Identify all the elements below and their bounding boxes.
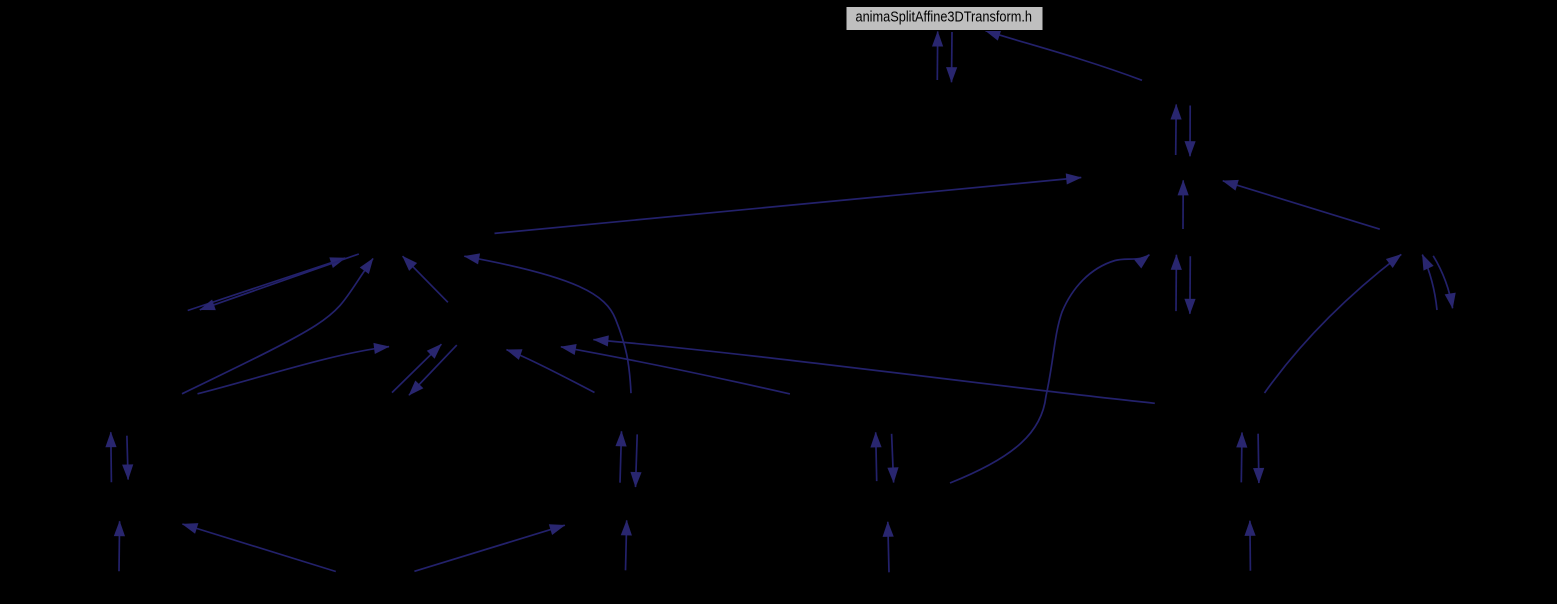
edge node B to node C (down): [1189, 106, 1191, 157]
edge node Y to node D (s-curve): [950, 255, 1149, 483]
edge node N to node A (curve): [182, 259, 373, 394]
edge node W to node T (up): [620, 431, 622, 482]
edge node S to node B2 (up diag): [392, 344, 441, 392]
edge node J to node U2 (line-a): [593, 340, 1154, 404]
edge top box to n2 (down arrow): [951, 32, 954, 82]
edge n2 to top box (up arrow): [936, 32, 938, 81]
edge node T to node B2 (right): [507, 350, 595, 393]
edge node F to node D (up): [1175, 255, 1177, 311]
edge node B2 to node A: [403, 256, 448, 302]
edge node H to node E (up arc): [1422, 255, 1437, 310]
edge node A to node M: [200, 254, 359, 310]
edge node V to node W: [414, 525, 564, 571]
edge node L2 to node L (up single): [1249, 521, 1252, 571]
svg-text:animaSplitAffine3DTransform.h: animaSplitAffine3DTransform.h: [856, 10, 1033, 26]
edge node V to node Q2: [182, 524, 335, 572]
edge node C to node B (up): [1175, 105, 1178, 156]
edge node N2 to node Q (down): [127, 436, 128, 480]
edge node E to node H (down arc): [1433, 256, 1452, 308]
edge node G to node E (arc): [1265, 254, 1402, 393]
edge node D to node F (down): [1189, 256, 1191, 314]
edge node J to node L (down): [1257, 434, 1260, 483]
edge node Y to node J2 (up): [876, 432, 877, 481]
edge node X2 to node Y (up single): [888, 522, 889, 573]
edge node A to node C (long): [495, 178, 1082, 234]
edge node J2 to node Y (down): [892, 434, 894, 483]
edge node Z to node U (line-b): [561, 347, 790, 394]
edge node N to node B2: [198, 347, 390, 394]
edge node T to node W (down): [636, 434, 638, 487]
edge node B2 to node S (down diag): [409, 345, 457, 395]
node animaSplitAffine3DTransform.h: [846, 7, 1043, 31]
edge node X to node W: [626, 520, 627, 570]
edge node B to top box: [985, 31, 1142, 81]
edge node L to node J (up): [1240, 433, 1243, 483]
edge node P2 to node Q (up single): [118, 521, 121, 571]
edge node E to node C: [1223, 181, 1380, 229]
edge node M to node A: [188, 258, 346, 311]
edge node D to node C (up): [1182, 180, 1184, 229]
edge node Q to node N2 (up): [110, 432, 113, 482]
edge node T to node A (big bend): [464, 256, 631, 393]
